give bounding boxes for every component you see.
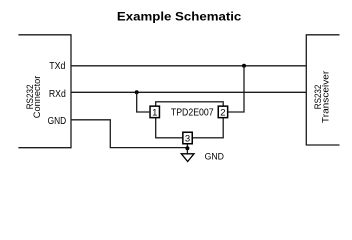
svg-text:GND: GND bbox=[48, 116, 67, 127]
wire pin 3 to ground symbol bbox=[186, 145, 188, 154]
svg-text:GND: GND bbox=[205, 151, 224, 162]
junction dot on ground stub bbox=[185, 146, 189, 150]
wire TXd net (connector to transceiver) bbox=[71, 65, 306, 67]
pin 1 square bbox=[150, 106, 159, 118]
junction dot on RXd wire bbox=[135, 90, 139, 94]
connector J1 label "RS232 Connector" (rotated) bbox=[25, 76, 42, 119]
wire GND net (connector to ground junction) bbox=[71, 120, 187, 148]
wire from RXd junction down to pin 1 bbox=[137, 92, 150, 112]
transceiver U2 box (RS232 Transceiver, open on right) bbox=[306, 35, 339, 145]
connector J1 box (RS232 Connector, open on left) bbox=[18, 35, 71, 148]
svg-text:2: 2 bbox=[220, 108, 225, 119]
ESD protection U1 TPD2E007 body bbox=[156, 102, 224, 138]
wire RXd net (connector to transceiver) bbox=[71, 91, 306, 93]
pin 3 square bbox=[183, 132, 192, 144]
svg-text:3: 3 bbox=[185, 134, 190, 145]
svg-text:Connector: Connector bbox=[32, 76, 42, 119]
svg-text:TPD2E007: TPD2E007 bbox=[171, 108, 214, 119]
pin 2 square bbox=[218, 106, 227, 118]
transceiver U2 label "RS232 Transceiver" (rotated) bbox=[313, 71, 331, 123]
ground symbol (open triangle) bbox=[181, 154, 194, 162]
svg-text:Example Schematic: Example Schematic bbox=[117, 10, 242, 24]
svg-text:RXd: RXd bbox=[49, 89, 66, 100]
svg-text:Transceiver: Transceiver bbox=[321, 71, 331, 123]
junction dot on TXd wire bbox=[242, 64, 246, 68]
svg-text:1: 1 bbox=[152, 108, 157, 119]
svg-text:TXd: TXd bbox=[49, 61, 65, 72]
wire from TXd junction down to pin 2 bbox=[228, 66, 244, 112]
